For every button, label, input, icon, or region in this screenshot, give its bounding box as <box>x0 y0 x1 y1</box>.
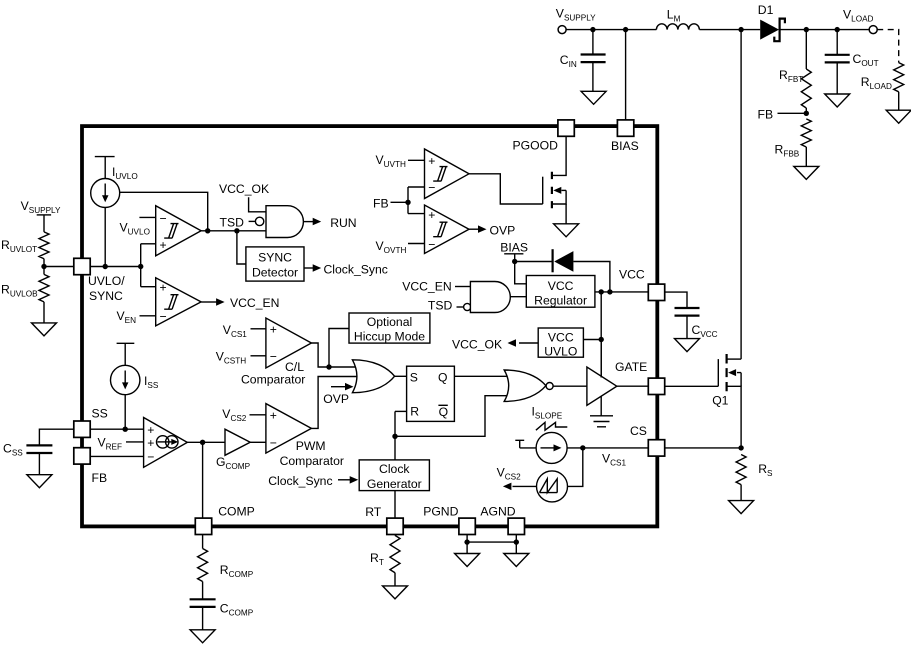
node V_SUPPLY top terminal <box>556 7 596 34</box>
pin CS <box>648 440 664 456</box>
svg-text:SYNC: SYNC <box>258 251 292 265</box>
svg-text:Q1: Q1 <box>712 394 728 408</box>
wire latch Q to NOR gate <box>454 375 509 377</box>
svg-text:COUT: COUT <box>853 52 879 68</box>
source V_CS2 sawtooth <box>537 448 583 502</box>
wire OVP into OR gate arrow <box>323 383 353 406</box>
wire V_SUPPLY to L_M <box>566 29 656 31</box>
node FB divider <box>758 107 810 121</box>
svg-text:Comparator: Comparator <box>280 454 344 468</box>
block VCC Regulator <box>526 276 595 308</box>
junction BIAS tap <box>512 259 517 264</box>
junction C_IN node <box>590 27 595 32</box>
diode D1 (schottky) <box>758 3 785 41</box>
pin RT <box>387 518 403 534</box>
svg-text:SS: SS <box>92 407 108 421</box>
wire G_COMP to PWM comparator <box>250 441 266 443</box>
junction clock node <box>392 434 397 439</box>
svg-text:+: + <box>270 323 277 337</box>
junction AGND ground <box>514 539 519 544</box>
svg-text:OVP: OVP <box>490 224 516 238</box>
svg-text:GCOMP: GCOMP <box>216 455 251 471</box>
ground under R_T <box>383 586 408 599</box>
svg-text:−: − <box>428 181 435 195</box>
svg-text:VUVLO: VUVLO <box>120 221 150 237</box>
junction C_OUT node <box>835 27 840 32</box>
transistor PGOOD mosfet <box>543 136 566 224</box>
wire VCC_OK arrow left <box>452 338 538 352</box>
wire and-gate to VCC Regulator <box>510 296 526 298</box>
wire to SYNC Detector <box>237 231 246 264</box>
ground under C_OUT <box>825 94 850 107</box>
junction PGND ground <box>464 539 469 544</box>
svg-text:CVCC: CVCC <box>692 323 718 339</box>
ground under R_S <box>729 501 754 514</box>
svg-text:−: − <box>160 309 167 323</box>
svg-text:UVLO: UVLO <box>544 345 577 359</box>
resistor R_T <box>370 535 400 586</box>
current source I_UVLO <box>91 157 138 267</box>
svg-text:IUVLO: IUVLO <box>112 165 138 181</box>
label V_CSTH <box>216 350 266 366</box>
svg-text:D1: D1 <box>758 3 774 17</box>
wire PGND-AGND tie <box>467 541 516 543</box>
label V_UVTH <box>376 153 425 169</box>
svg-text:FB: FB <box>92 471 108 485</box>
junction hysteresis node <box>205 228 210 233</box>
wire Clock Generator to RT pin <box>394 491 396 518</box>
svg-text:RS: RS <box>758 462 773 478</box>
pin BIAS <box>617 120 633 136</box>
capacitor C_SS <box>3 429 74 475</box>
svg-text:OVP: OVP <box>323 392 349 406</box>
wire L_M to D1 <box>699 29 760 31</box>
label TSD input <box>220 216 264 230</box>
junction comparator input node <box>138 264 143 269</box>
block Optional Hiccup Mode <box>349 313 430 344</box>
op-amp PWM comparator <box>266 404 344 468</box>
junction Q1 drain branch <box>738 27 743 32</box>
svg-text:Comparator: Comparator <box>241 373 305 387</box>
svg-text:VCSTH: VCSTH <box>216 350 247 366</box>
junction VCC rail 1 <box>599 289 604 294</box>
wire I_SLOPE to CS pin <box>567 447 648 449</box>
svg-text:R: R <box>410 405 419 419</box>
svg-text:VCC_OK: VCC_OK <box>219 182 269 196</box>
junction I_SS node <box>123 427 128 432</box>
node V_LOAD terminal <box>843 8 877 34</box>
block VCC UVLO <box>538 328 583 359</box>
svg-text:Detector: Detector <box>252 266 298 280</box>
svg-text:Hiccup Mode: Hiccup Mode <box>354 330 425 344</box>
ground under C_IN <box>581 91 606 104</box>
svg-text:FB: FB <box>758 107 774 121</box>
wire C/L output to OR gate <box>311 343 356 367</box>
svg-text:Clock: Clock <box>379 462 410 476</box>
ground under PGOOD mosfet <box>554 224 579 237</box>
svg-text:RUVLOT: RUVLOT <box>1 238 37 254</box>
wire Q1 drain vertical <box>740 30 742 360</box>
wire NOR to driver <box>553 385 587 387</box>
node FB internal <box>373 187 425 214</box>
junction I_UVLO node <box>103 264 108 269</box>
wire V_UVLO comparator output <box>201 230 266 232</box>
svg-text:CSS: CSS <box>3 442 23 458</box>
svg-text:+: + <box>428 208 435 222</box>
svg-text:GATE: GATE <box>615 360 647 374</box>
wire VCC_EN output arrow <box>201 296 279 310</box>
svg-text:Q: Q <box>439 405 448 419</box>
wire Clock_Sync into Clock Generator arrow <box>268 474 358 488</box>
resistor R_UVLOT <box>1 232 49 267</box>
svg-text:VCC: VCC <box>548 331 574 345</box>
svg-text:LM: LM <box>667 8 681 24</box>
wire VCC_OK to AND gate <box>249 197 266 212</box>
svg-text:RCOMP: RCOMP <box>220 563 254 579</box>
op-amp gate driver <box>587 367 617 405</box>
label V_CS2 <box>222 407 266 423</box>
junction R_S node <box>738 445 743 450</box>
pin VCC <box>648 284 664 300</box>
wire COMP node down to COMP pin <box>202 442 204 518</box>
capacitor C_IN <box>560 30 606 92</box>
svg-text:VCC_EN: VCC_EN <box>402 280 451 294</box>
resistor R_LOAD <box>861 63 904 111</box>
ground under C_SS <box>27 475 52 488</box>
wire VCC Regulator to VCC pin <box>595 291 648 293</box>
svg-text:PGOOD: PGOOD <box>513 139 559 153</box>
svg-text:RUN: RUN <box>330 216 356 230</box>
wire V_CS2 arrow left <box>497 466 537 491</box>
current source I_SS <box>111 343 159 429</box>
svg-text:CS: CS <box>630 424 647 438</box>
svg-text:TSD: TSD <box>220 216 245 230</box>
svg-text:CIN: CIN <box>560 53 577 69</box>
junction R_FBT node <box>804 27 809 32</box>
wire UVLO pin to comparator inputs <box>90 266 141 268</box>
ground under C_COMP <box>190 630 215 643</box>
diode BIAS (to VCC) <box>515 249 610 292</box>
ground driver (earth) <box>590 416 613 427</box>
wire RUN output arrow <box>303 216 356 230</box>
svg-text:RUVLOB: RUVLOB <box>1 283 38 299</box>
svg-text:−: − <box>147 450 154 464</box>
svg-text:−: − <box>270 436 277 450</box>
svg-text:VCC: VCC <box>619 268 645 282</box>
svg-text:Clock_Sync: Clock_Sync <box>268 474 332 488</box>
svg-text:RFBB: RFBB <box>775 143 800 159</box>
svg-text:Regulator: Regulator <box>534 294 587 308</box>
ground under R_FBB <box>794 166 819 179</box>
block SYNC Detector <box>246 247 304 281</box>
resistor R_S <box>736 455 773 501</box>
wire BIAS tap to regulator <box>515 262 527 284</box>
svg-text:−: − <box>160 211 167 225</box>
svg-text:+: + <box>270 409 277 423</box>
svg-text:VSUPPLY: VSUPPLY <box>21 199 61 215</box>
resistor R_COMP <box>198 535 254 600</box>
wire CS pin to R_S <box>665 447 741 449</box>
op-amp G_COMP buffer <box>216 429 251 471</box>
op-amp V_UVLO comparator <box>120 206 202 256</box>
ground under AGND <box>504 554 529 567</box>
svg-text:BIAS: BIAS <box>500 241 528 255</box>
svg-text:−: − <box>428 237 435 251</box>
svg-text:RT: RT <box>370 551 384 567</box>
wire PWM output to OR gate <box>311 377 356 429</box>
svg-text:−: − <box>270 350 277 364</box>
wire VCC into driver <box>600 340 602 378</box>
capacitor C_COMP <box>190 599 254 630</box>
junction COMP node <box>200 440 205 445</box>
op-amp error amplifier <box>144 418 188 468</box>
svg-text:RT: RT <box>365 505 382 519</box>
wire hiccup connection <box>329 329 349 368</box>
wire VCC UVLO to rail <box>583 339 601 341</box>
svg-text:Q: Q <box>438 370 447 384</box>
svg-text:ISLOPE: ISLOPE <box>532 404 563 420</box>
capacitor C_VCC <box>665 292 718 339</box>
svg-text:VCS1: VCS1 <box>223 323 248 339</box>
svg-text:ISS: ISS <box>144 374 159 390</box>
svg-text:VCS2: VCS2 <box>222 407 247 423</box>
svg-text:AGND: AGND <box>480 505 515 519</box>
svg-text:VOVTH: VOVTH <box>376 239 407 255</box>
svg-text:VCC_EN: VCC_EN <box>230 296 279 310</box>
pin PGOOD <box>558 120 574 136</box>
block Clock Generator <box>359 460 429 491</box>
wire driver to ground <box>600 397 602 416</box>
pin UVLO/SYNC <box>74 258 90 274</box>
wire UVTH comparator to PGOOD mosfet gate <box>469 174 543 204</box>
svg-text:TSD: TSD <box>428 299 453 313</box>
svg-text:RLOAD: RLOAD <box>861 75 892 91</box>
svg-text:Generator: Generator <box>367 477 422 491</box>
junction SYNC branch node <box>234 228 239 233</box>
pin AGND <box>508 518 524 534</box>
svg-text:VLOAD: VLOAD <box>843 8 874 24</box>
or-gate main <box>352 360 394 393</box>
wire OR to latch S <box>395 375 407 377</box>
wire driver to GATE pin <box>617 385 649 387</box>
and-gate VCC enable <box>470 282 510 313</box>
pin FB <box>74 448 90 464</box>
svg-text:VCC: VCC <box>548 279 574 293</box>
node UVLO divider junction <box>41 264 46 269</box>
resistor R_FBT <box>779 30 811 114</box>
label VCC_EN input <box>402 280 470 294</box>
op-amp UVTH comparator <box>425 149 470 199</box>
wire clock to latch R and NOR <box>395 410 407 412</box>
junction V_CS1 node <box>580 445 585 450</box>
resistor R_UVLOB <box>1 267 49 323</box>
wire Clock_Sync output arrow <box>304 263 388 277</box>
ground under R_UVLOB <box>32 323 57 336</box>
supply bar BIAS internal <box>500 241 528 262</box>
svg-text:PWM: PWM <box>296 439 326 453</box>
svg-text:RFBT: RFBT <box>779 68 803 84</box>
wire OVP output arrow <box>469 224 515 238</box>
svg-text:Clock_Sync: Clock_Sync <box>324 263 388 277</box>
svg-text:FB: FB <box>373 197 389 211</box>
wire divider to UVLO/SYNC pin <box>44 266 74 268</box>
junction VCC UVLO tap <box>599 337 604 342</box>
wire error amp output <box>187 441 225 443</box>
svg-text:+: + <box>428 154 435 168</box>
label V_CS1 <box>223 323 266 339</box>
current source I_SLOPE <box>515 404 567 463</box>
svg-text:CCOMP: CCOMP <box>220 602 254 618</box>
svg-text:Optional: Optional <box>367 315 412 329</box>
op-amp OVTH comparator <box>376 205 470 255</box>
junction hiccup tap <box>326 364 331 369</box>
supply bar V_SUPPLY left <box>21 199 61 232</box>
wire BIAS branch down to BIAS pin <box>625 30 627 121</box>
resistor R_FBB <box>775 119 812 166</box>
svg-text:VSUPPLY: VSUPPLY <box>556 7 596 23</box>
svg-text:SYNC: SYNC <box>89 289 123 303</box>
svg-text:VCS2: VCS2 <box>497 466 522 482</box>
svg-text:S: S <box>410 370 418 384</box>
wire GATE pin to Q1 <box>665 385 719 387</box>
junction BIAS branch node <box>623 27 628 32</box>
op-amp C/L comparator <box>241 318 311 387</box>
wire dashed V_LOAD to R_LOAD <box>877 30 899 63</box>
nor-gate driver input <box>504 370 553 401</box>
wire D1 to V_LOAD <box>780 29 870 31</box>
IC boundary <box>82 126 657 526</box>
label pin UVLO/SYNC <box>88 274 125 303</box>
svg-text:BIAS: BIAS <box>611 139 639 153</box>
svg-text:VREF: VREF <box>98 436 123 452</box>
svg-text:+: + <box>160 238 167 252</box>
capacitor C_OUT <box>825 30 879 94</box>
svg-text:VCS1: VCS1 <box>602 452 627 468</box>
svg-text:+: + <box>147 436 154 450</box>
ground under C_VCC <box>675 339 700 352</box>
pin GATE <box>648 378 664 394</box>
wire SS pin to error amp <box>90 428 144 430</box>
op-amp V_EN comparator <box>117 278 202 326</box>
and-gate RUN <box>266 206 303 238</box>
ground under R_LOAD <box>886 110 911 123</box>
svg-text:+: + <box>160 281 167 295</box>
pin COMP <box>195 518 211 534</box>
svg-text:VEN: VEN <box>117 309 137 325</box>
wire PGND to ground <box>466 535 468 554</box>
label V_REF <box>98 436 144 452</box>
svg-text:COMP: COMP <box>218 505 255 519</box>
latch SR <box>407 366 455 421</box>
pin PGND <box>459 518 475 534</box>
label TSD input 2 <box>428 299 471 313</box>
svg-text:UVLO/: UVLO/ <box>88 274 125 288</box>
svg-text:VCC_OK: VCC_OK <box>452 338 502 352</box>
pin SS <box>74 421 90 437</box>
svg-text:PGND: PGND <box>423 505 458 519</box>
wire I_UVLO hysteresis to comparator output <box>120 192 208 231</box>
inductor L_M <box>656 8 699 30</box>
svg-text:VUVTH: VUVTH <box>376 153 407 169</box>
transistor Q1 <box>712 354 741 448</box>
ground under PGND <box>455 554 480 567</box>
wire VCC down to driver <box>600 292 602 378</box>
junction VCC rail 2 <box>607 289 612 294</box>
wire FB pin to error amp <box>90 455 144 457</box>
